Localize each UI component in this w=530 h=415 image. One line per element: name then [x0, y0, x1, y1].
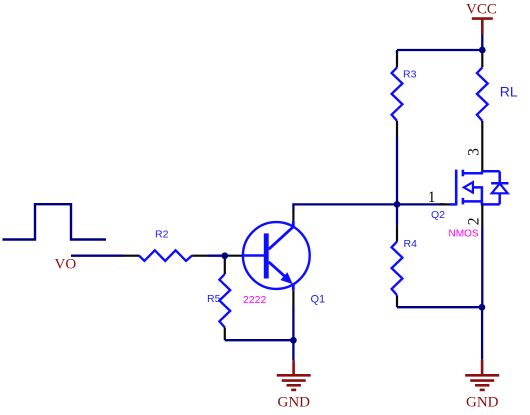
resistor R4 [392, 242, 403, 296]
wire rail to R3 [396, 50, 398, 53]
wire node 1 to R4 [396, 204, 398, 225]
transistor Q2 source stub [463, 200, 482, 203]
svg-text:VO: VO [55, 257, 77, 273]
svg-text:R4: R4 [404, 238, 418, 250]
transistor Q1 circle [243, 222, 310, 289]
node 1 junction dot [394, 201, 401, 208]
svg-text:RL: RL [500, 84, 518, 100]
wire Q1 collector to node 1 [293, 203, 397, 205]
wire collector riser [292, 203, 294, 209]
power port VCC stem [481, 19, 484, 34]
body diode cathode lead [498, 171, 501, 183]
wire VO to R2 [71, 255, 123, 257]
transistor Q2 top rail [482, 170, 500, 173]
svg-text:2222: 2222 [243, 294, 267, 306]
wire VCC rail [397, 49, 482, 51]
ground 2 bar 1 [465, 374, 499, 377]
resistor RL pin 1 [481, 50, 483, 67]
transistor Q2 gate pin [440, 203, 450, 205]
body diode cathode bar [491, 182, 508, 185]
resistor R5 pin 2 [224, 328, 226, 341]
transistor Q2 body arrow [464, 182, 473, 192]
transistor Q2 top channel dash [462, 170, 465, 177]
transistor Q2 gate lead [450, 203, 457, 206]
resistor RL pin 2 [481, 121, 483, 146]
wire source to junction [481, 227, 483, 308]
transistor Q2 bottom rail [481, 203, 500, 206]
svg-text:R5: R5 [207, 293, 221, 305]
wire emitter to junction [292, 306, 294, 340]
rail junction dot [479, 47, 486, 54]
resistor R3 pin 1 [396, 52, 398, 68]
ground 1 bar 2 [282, 379, 306, 382]
ground 1 bar 4 [291, 389, 296, 392]
transistor Q1 collector line [269, 221, 294, 249]
resistor R2 pin 2 [192, 255, 208, 257]
transistor Q1 base lead [243, 254, 265, 256]
emitter junction dot [290, 337, 297, 344]
wire R5 to emitter junction [225, 339, 294, 341]
svg-text:R2: R2 [155, 229, 169, 241]
resistor R5 pin 1 [224, 256, 226, 274]
svg-text:Q2: Q2 [431, 209, 445, 221]
transistor Q1 base bar [264, 233, 269, 278]
transistor Q2 bottom channel dash [462, 198, 465, 205]
wire R2 to node A [208, 255, 225, 257]
transistor Q2 source pin [481, 204, 483, 226]
wire junction to ground 2 [481, 307, 483, 360]
resistor R2 [139, 250, 192, 261]
transistor Q2 drain pin [481, 146, 483, 171]
ground 2 stem [481, 360, 484, 376]
ground 2 bar 2 [470, 379, 494, 382]
transistor Q1 collector pin [292, 210, 294, 221]
node A junction dot [221, 252, 228, 259]
resistor R3 [392, 67, 403, 121]
transistor Q1 emitter arrow [280, 272, 292, 284]
svg-text:Q1: Q1 [311, 294, 326, 306]
ground 1 stem [292, 360, 295, 375]
resistor R5 [219, 274, 230, 328]
body diode triangle [492, 184, 508, 194]
resistor RL [477, 67, 488, 121]
ground 1 bar 1 [277, 374, 311, 377]
transistor Q2 body lead [473, 187, 482, 204]
pulse source waveform [3, 204, 107, 239]
svg-text:GND: GND [278, 395, 311, 411]
resistor R3 pin 2 [396, 121, 398, 137]
transistor Q1 emitter line [269, 262, 294, 291]
wire node A to Q1 base [225, 255, 243, 257]
ground 2 bar 4 [480, 389, 485, 392]
wire VCC to rail [481, 34, 483, 50]
wire R3 to node 1 [396, 137, 398, 204]
svg-text:3: 3 [465, 148, 482, 156]
transistor Q1 emitter pin [292, 290, 294, 306]
svg-text:R3: R3 [403, 69, 417, 81]
resistor R4 pin 1 [396, 226, 398, 242]
svg-text:NMOS: NMOS [449, 229, 479, 240]
transistor Q2 gate bar [455, 170, 458, 206]
source junction dot [479, 304, 486, 311]
ground 1 bar 3 [287, 384, 301, 387]
svg-text:2: 2 [465, 218, 482, 226]
svg-text:GND: GND [466, 395, 499, 411]
wire R4 to source junction [397, 306, 482, 308]
power port VCC bar [472, 17, 493, 20]
svg-text:VCC: VCC [466, 1, 497, 17]
body diode anode lead [498, 193, 501, 204]
resistor R2 pin 1 [123, 255, 139, 257]
wire node 1 to Q2 gate [397, 203, 445, 205]
resistor R4 pin 2 [396, 295, 398, 307]
wire junction to ground 1 [292, 340, 294, 360]
transistor Q2 drain stub [463, 171, 482, 173]
ground 2 bar 3 [475, 384, 489, 387]
